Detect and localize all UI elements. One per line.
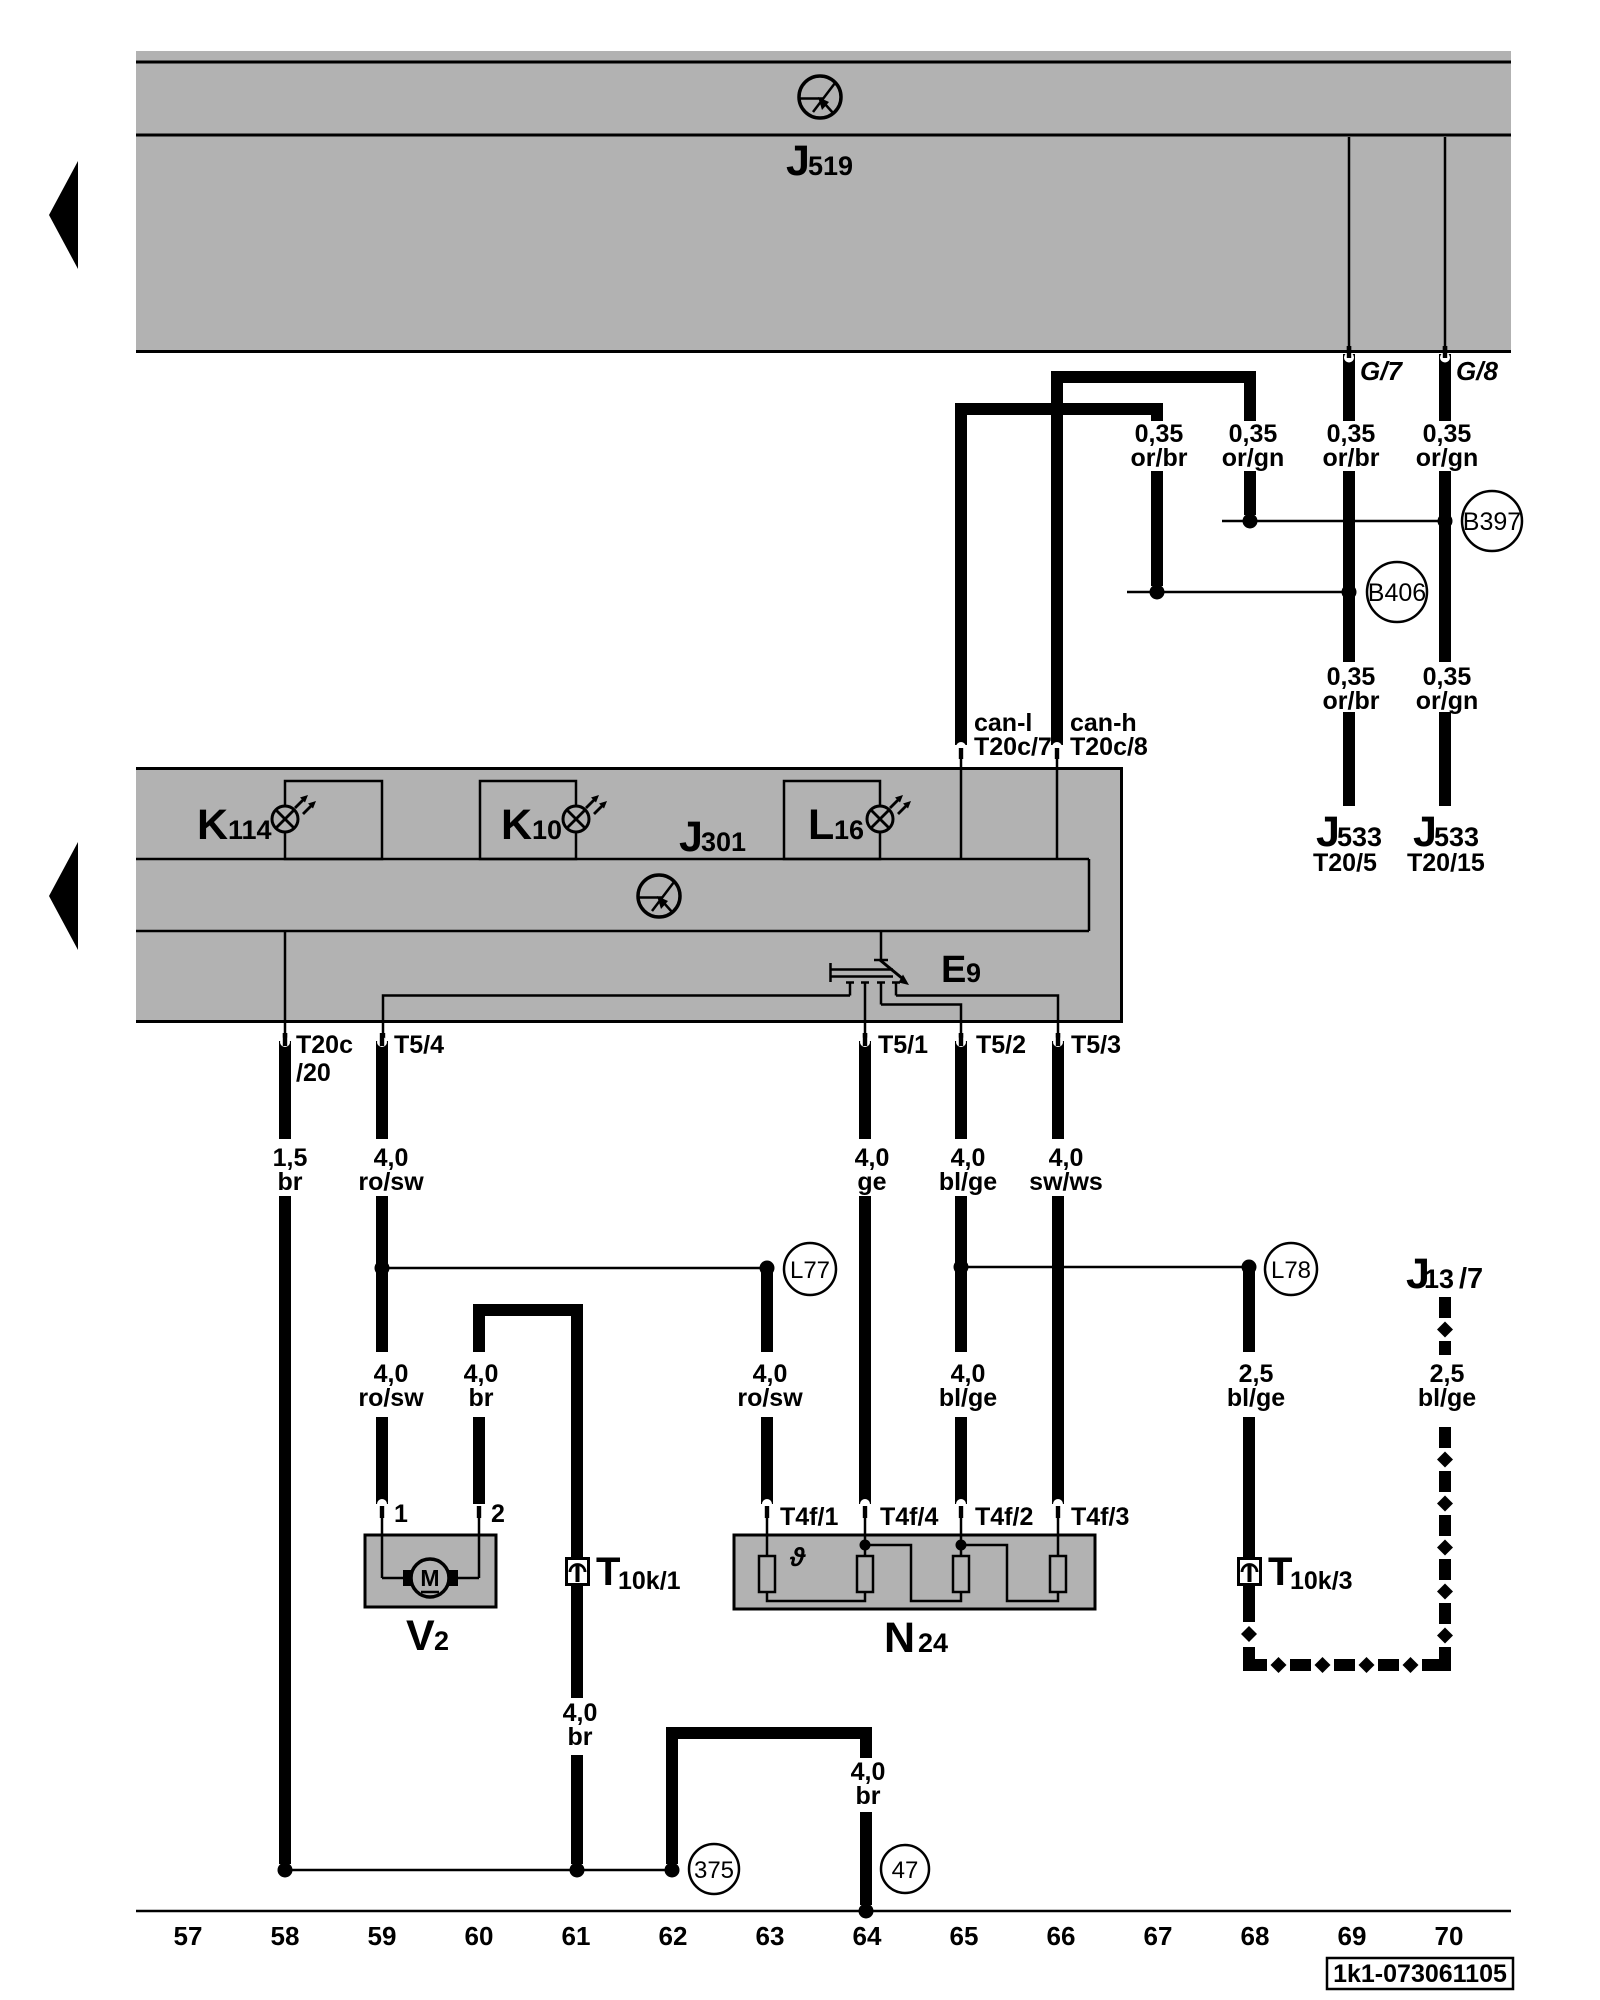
- connector pin 1 (V2): [377, 1499, 387, 1535]
- control unit J519 (onboard supply control unit) box: [136, 51, 1511, 353]
- svg-text:N: N: [884, 1614, 915, 1662]
- svg-text:T20c/8: T20c/8: [1070, 733, 1148, 761]
- label T10k/1: [596, 1550, 681, 1595]
- wire 4,0 ge (T5/1 down to N24 T4f/4, column 64): [860, 1033, 870, 1504]
- svg-text:E: E: [941, 949, 966, 991]
- wire size label 2,5 bl/ge (col 70, J13/7 branch): [1418, 1360, 1476, 1412]
- wire 4,0 br (T10k/1 down to ground node, column 61): [571, 1584, 583, 1864]
- svg-text:61: 61: [562, 1921, 591, 1951]
- pin label can-l T20c/7: [974, 709, 1052, 761]
- svg-text:16: 16: [834, 815, 864, 845]
- svg-text:T20/15: T20/15: [1407, 849, 1485, 877]
- node line B397 (thin link): [1222, 520, 1445, 523]
- node line L78 (thin link): [961, 1266, 1249, 1269]
- indicator lamp K114 (box and lamp): [272, 781, 382, 859]
- connector T20c/8 (can-h into J301): [1052, 742, 1062, 767]
- svg-text:L78: L78: [1271, 1257, 1311, 1284]
- svg-text:57: 57: [174, 1921, 203, 1951]
- svg-text:2: 2: [491, 1500, 505, 1528]
- svg-text:br: br: [469, 1384, 494, 1412]
- svg-text:10k/3: 10k/3: [1290, 1567, 1353, 1595]
- label T10k/3: [1268, 1550, 1353, 1595]
- svg-text:301: 301: [701, 827, 746, 857]
- svg-text:375: 375: [694, 1857, 734, 1884]
- svg-text:br: br: [278, 1168, 303, 1196]
- pin wire G/8 inside J519: [1443, 137, 1447, 358]
- svg-text:T4f/4: T4f/4: [880, 1503, 938, 1531]
- svg-text:10: 10: [532, 815, 562, 845]
- inline connector T10k/1 symbol: [567, 1559, 589, 1585]
- ground node line (thin link to 375): [285, 1869, 672, 1872]
- wire can-l 0,35 or/br (J301 T20c/7 up and over to B406): [961, 409, 1157, 745]
- svg-text:G/8: G/8: [1456, 356, 1498, 386]
- svg-text:1k1-073061105: 1k1-073061105: [1333, 1960, 1507, 1988]
- resistor R1 inside N24: [759, 1535, 865, 1601]
- wire size label 4,0 ro/sw (lower, col 59): [358, 1360, 424, 1412]
- svg-text:66: 66: [1047, 1921, 1076, 1951]
- label J519: [786, 137, 853, 185]
- junction dot at L78: [1242, 1260, 1257, 1275]
- svg-text:T4f/3: T4f/3: [1071, 1503, 1129, 1531]
- svg-text:T4f/2: T4f/2: [975, 1503, 1033, 1531]
- svg-text:ge: ge: [857, 1168, 886, 1196]
- svg-text:T5/2: T5/2: [976, 1031, 1026, 1059]
- wire 4,0 br (V2 pin 2 up over to T10k/1, columns 60-61): [479, 1310, 577, 1558]
- svg-text:13: 13: [1424, 1264, 1454, 1294]
- motor V2 (fresh air blower) box: [365, 1535, 496, 1607]
- wire size label 0,35 or/gn (can-h branch): [1222, 420, 1285, 472]
- svg-text:T5/1: T5/1: [878, 1031, 928, 1059]
- connector pin 2 (V2): [474, 1499, 484, 1535]
- indicator lamp L16 (box and lamp): [784, 781, 911, 859]
- svg-text:/20: /20: [296, 1059, 331, 1087]
- svg-text:ϑ: ϑ: [789, 1542, 806, 1572]
- label J533 T20/15 (gateway, col 70): [1407, 808, 1485, 877]
- svg-text:ro/sw: ro/sw: [358, 1384, 424, 1412]
- junction dot col 61 at ground line: [570, 1863, 585, 1878]
- wire size label 0,35 or/br (upper, col 69): [1323, 420, 1380, 472]
- svg-text:2: 2: [434, 1626, 449, 1656]
- direction arrow (left margin, top): [49, 161, 78, 269]
- switch E9 (blower switch) inside J301: [830, 931, 909, 1033]
- connector T20c/7 (can-l into J301): [956, 742, 966, 767]
- resistor R3 inside N24: [953, 1535, 1058, 1601]
- label J533 T20/5 (gateway, col 69): [1313, 808, 1382, 877]
- wire E9 to T5/3 inside J301: [896, 996, 1058, 1034]
- connector T5/2 (J301 bottom): [959, 1033, 963, 1045]
- svg-text:bl/ge: bl/ge: [939, 1168, 997, 1196]
- wire size label 4,0 br (col 60): [464, 1360, 499, 1412]
- svg-text:533: 533: [1434, 822, 1479, 852]
- wire 2,5 bl/ge (L78 down to T10k/3, column 68): [1243, 1267, 1255, 1558]
- connection circle B397: [1462, 491, 1522, 551]
- svg-text:T20/5: T20/5: [1313, 849, 1377, 877]
- junction dot col 62 at ground line: [665, 1863, 680, 1878]
- svg-text:K: K: [197, 801, 228, 849]
- resistor pack N24 (series resistor) box: [734, 1535, 1095, 1609]
- svg-text:67: 67: [1144, 1921, 1173, 1951]
- resistor R2 inside N24: [857, 1535, 961, 1601]
- wire size label 4,0 br (col 61): [563, 1699, 598, 1751]
- junction dot on or/br wire at B406 line: [1342, 585, 1357, 600]
- wire size label 4,0 bl/ge (upper, col 65): [939, 1144, 997, 1196]
- circled arrow symbol inside J301: [638, 875, 680, 917]
- svg-text:533: 533: [1337, 822, 1382, 852]
- wire size label 4,0 ge: [855, 1144, 890, 1196]
- wire size label 1,5 br: [273, 1144, 308, 1196]
- svg-text:ro/sw: ro/sw: [358, 1168, 424, 1196]
- svg-text:br: br: [568, 1723, 593, 1751]
- wire size label 4,0 bl/ge (lower, col 65): [939, 1360, 997, 1412]
- svg-text:63: 63: [756, 1921, 785, 1951]
- svg-text:or/br: or/br: [1323, 687, 1380, 715]
- svg-text:K: K: [501, 801, 532, 849]
- svg-text:70: 70: [1435, 1921, 1464, 1951]
- connector T5/1 (J301 bottom): [863, 1033, 867, 1045]
- wire size label 0,35 or/gn (lower, col 70): [1416, 663, 1479, 715]
- svg-text:T20c/7: T20c/7: [974, 733, 1052, 761]
- label J301: [679, 813, 746, 861]
- connector T5/4 (J301 bottom): [381, 1033, 385, 1045]
- wire 1,5 br (T20c/20 down to ground node, column 58): [280, 1033, 290, 1864]
- junction dot col 58 at ground line: [278, 1863, 293, 1878]
- svg-text:B397: B397: [1463, 508, 1521, 536]
- junction dot on can-h branch at B397 line: [1243, 514, 1258, 529]
- wire can-h entry inside J301: [1056, 767, 1059, 859]
- pin wire G/7 inside J519: [1347, 137, 1351, 358]
- wire 4,0 bl/ge (T5/2 down to N24 T4f/2, column 65): [956, 1033, 966, 1504]
- svg-text:br: br: [856, 1782, 881, 1810]
- svg-text:bl/ge: bl/ge: [1418, 1384, 1476, 1412]
- junction dot on T5/2 wire at L78 line: [954, 1260, 969, 1275]
- svg-text:L: L: [808, 801, 834, 849]
- wire size label 2,5 bl/ge (col 68): [1227, 1360, 1285, 1412]
- svg-text:L77: L77: [790, 1257, 830, 1284]
- circled arrow symbol inside J519: [799, 76, 841, 118]
- svg-text:B406: B406: [1368, 579, 1426, 607]
- wire size label 4,0 ro/sw (col 63): [737, 1360, 803, 1412]
- label L16: [808, 801, 864, 849]
- connection circle L78: [1265, 1243, 1317, 1295]
- svg-text:bl/ge: bl/ge: [1227, 1384, 1285, 1412]
- label N24: [884, 1614, 948, 1662]
- svg-text:or/br: or/br: [1131, 444, 1188, 472]
- resistor R4 inside N24: [1050, 1535, 1066, 1592]
- label J13/7: [1406, 1250, 1483, 1298]
- wire K114 to T20c/20 inside J301: [284, 931, 287, 1033]
- svg-text:J: J: [786, 137, 810, 185]
- direction arrow (left margin, middle): [49, 842, 78, 950]
- connector T4f/4 (N24 top): [860, 1499, 870, 1535]
- wire size label 0,35 or/br (lower, col 69): [1323, 663, 1380, 715]
- svg-text:G/7: G/7: [1360, 356, 1403, 386]
- label E9: [941, 949, 981, 991]
- junction dot col 64 at bottom rail: [859, 1904, 874, 1919]
- label V2: [406, 1612, 449, 1660]
- dash-dot wire from T10k/3 to J13/7: [1241, 1297, 1453, 1673]
- wire 4,0 ro/sw (L77 down to N24 T4f/1, column 63): [761, 1268, 773, 1504]
- svg-text:T4f/1: T4f/1: [780, 1503, 838, 1531]
- label K10: [501, 801, 562, 849]
- svg-text:519: 519: [808, 151, 853, 181]
- svg-text:or/gn: or/gn: [1416, 444, 1479, 472]
- junction dot on or/gn wire at B397 line: [1438, 514, 1453, 529]
- svg-text:or/gn: or/gn: [1416, 687, 1479, 715]
- svg-text:114: 114: [228, 815, 272, 845]
- svg-text:62: 62: [659, 1921, 688, 1951]
- svg-text:J: J: [679, 813, 703, 861]
- ground reference circle 375: [689, 1844, 739, 1894]
- svg-text:T5/3: T5/3: [1071, 1031, 1121, 1059]
- svg-text:47: 47: [892, 1857, 919, 1884]
- svg-text:V: V: [406, 1612, 435, 1660]
- inline connector T10k/3 symbol: [1239, 1559, 1261, 1585]
- svg-text:or/br: or/br: [1323, 444, 1380, 472]
- wire E9 to T5/4 inside J301: [383, 996, 850, 1034]
- wire size label 4,0 sw/ws: [1029, 1144, 1103, 1196]
- wire 4,0 br (ground node up over to column 64): [672, 1733, 866, 1905]
- svg-text:ro/sw: ro/sw: [737, 1384, 803, 1412]
- connector T20c/20 (J301 bottom): [283, 1033, 287, 1045]
- connector T5/3 (J301 bottom): [1056, 1033, 1060, 1045]
- wire E9 to T5/2 inside J301: [881, 1005, 961, 1034]
- svg-text:64: 64: [853, 1921, 882, 1951]
- junction dot at L77: [760, 1261, 775, 1276]
- svg-text:60: 60: [465, 1921, 494, 1951]
- svg-text:65: 65: [950, 1921, 979, 1951]
- svg-text:59: 59: [368, 1921, 397, 1951]
- wire size label 4,0 ro/sw (upper, col 59): [358, 1144, 424, 1196]
- svg-text:1: 1: [394, 1500, 408, 1528]
- wire 4,0 ro/sw (T5/4 down to V2 pin 1, column 59): [377, 1033, 387, 1504]
- ground reference circle 47: [881, 1845, 929, 1893]
- node line L77 (thin link): [382, 1267, 767, 1270]
- wire size label 0,35 or/br (can-l branch): [1131, 420, 1188, 472]
- wire can-h 0,35 or/gn (J301 T20c/8 up and over to B397): [1057, 377, 1250, 745]
- svg-text:sw/ws: sw/ws: [1029, 1168, 1103, 1196]
- svg-text:T5/4: T5/4: [394, 1031, 444, 1059]
- wire 0,35 or/br (J519 G/7 to J533 T20/5, column 69): [1344, 346, 1354, 806]
- wire size label 4,0 br (col 64): [851, 1758, 886, 1810]
- connection circle B406: [1367, 562, 1427, 622]
- indicator lamp K10 (box and lamp): [480, 781, 607, 859]
- svg-text:M: M: [420, 1565, 439, 1591]
- svg-text:69: 69: [1338, 1921, 1367, 1951]
- svg-text:9: 9: [966, 958, 981, 988]
- wire 0,35 or/gn (J519 G/8 to J533 T20/15, column 70): [1440, 346, 1450, 806]
- svg-text:bl/ge: bl/ge: [939, 1384, 997, 1412]
- diagram number box 1k1-073061105: [1327, 1958, 1513, 1989]
- svg-text:or/gn: or/gn: [1222, 444, 1285, 472]
- connection circle L77: [784, 1243, 836, 1295]
- svg-text:T: T: [596, 1550, 620, 1594]
- node line B406 (thin link): [1127, 591, 1349, 594]
- label K114: [197, 801, 272, 849]
- wire can-l entry inside J301: [960, 767, 963, 859]
- junction dot on can-l branch at B406 line: [1150, 585, 1165, 600]
- bottom rail line: [136, 1910, 1511, 1913]
- svg-text:T20c: T20c: [296, 1031, 353, 1059]
- svg-text:10k/1: 10k/1: [618, 1567, 681, 1595]
- pin label T20c /20: [296, 1031, 353, 1087]
- wire 4,0 sw/ws (T5/3 down to N24 T4f/3, column 66): [1053, 1033, 1063, 1504]
- svg-text:/7: /7: [1459, 1263, 1483, 1295]
- control unit J301 (A/C control unit) box: [136, 767, 1123, 1023]
- pin label can-h T20c/8: [1070, 709, 1148, 761]
- wire 2,5 bl/ge below T10k/3: [1243, 1584, 1255, 1622]
- connector T4f/2 (N24 top): [956, 1499, 966, 1535]
- svg-text:T: T: [1268, 1550, 1292, 1594]
- svg-text:58: 58: [271, 1921, 300, 1951]
- connector T4f/3 (N24 top): [1053, 1499, 1063, 1535]
- connector T4f/1 (N24 top): [762, 1499, 772, 1535]
- svg-text:68: 68: [1241, 1921, 1270, 1951]
- junction dot on T5/4 wire at L77 line: [375, 1261, 390, 1276]
- wire size label 0,35 or/gn (upper, col 70): [1416, 420, 1479, 472]
- svg-text:24: 24: [918, 1628, 948, 1658]
